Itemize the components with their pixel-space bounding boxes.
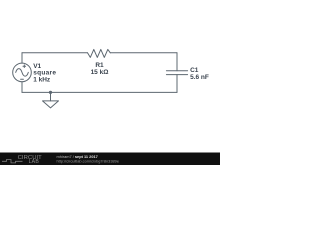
wire top-right horizontal xyxy=(110,52,177,54)
voltage source V1 xyxy=(13,63,32,82)
svg-text:square: square xyxy=(33,70,56,77)
svg-text:1 kHz: 1 kHz xyxy=(33,77,51,84)
footer bar xyxy=(0,153,220,166)
svg-text:5.6 nF: 5.6 nF xyxy=(190,74,209,81)
svg-text:LAB: LAB xyxy=(29,159,40,165)
ground xyxy=(43,101,59,108)
wire right vertical top xyxy=(176,53,178,71)
wire left vertical bottom xyxy=(21,82,23,93)
svg-text:http://circuitlab.com/c/xbg7r8: http://circuitlab.com/c/xbg7r8n3389e xyxy=(57,158,120,163)
wire right vertical bottom xyxy=(176,75,178,93)
wire left vertical top xyxy=(21,53,23,63)
node junction dot xyxy=(49,91,52,94)
svg-text:15 kΩ: 15 kΩ xyxy=(91,69,109,76)
svg-text:R1: R1 xyxy=(95,62,104,69)
wire ground stub xyxy=(50,92,52,101)
wire bottom horizontal xyxy=(22,91,177,93)
capacitor C1 xyxy=(166,71,187,75)
resistor R1 xyxy=(88,49,111,57)
logo waveform xyxy=(2,160,23,163)
wire top-left horizontal xyxy=(22,52,88,54)
